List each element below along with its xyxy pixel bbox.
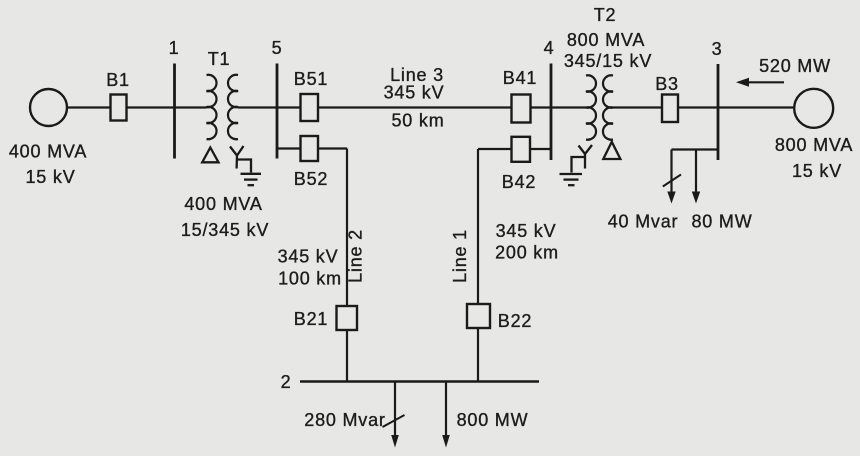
svg-text:B1: B1: [106, 70, 130, 90]
svg-text:400 MVA: 400 MVA: [184, 194, 262, 214]
wire B3 to G2: [678, 106, 795, 108]
wye T2: [579, 145, 593, 169]
svg-text:T2: T2: [594, 5, 617, 25]
svg-text:345/15 kV: 345/15 kV: [564, 51, 652, 71]
svg-text:B42: B42: [502, 172, 536, 192]
wire T1 to B51: [238, 106, 301, 108]
wire B41 to T2: [531, 106, 587, 108]
svg-text:15 kV: 15 kV: [25, 167, 75, 187]
breaker B51: [301, 94, 319, 121]
breaker B1: [111, 95, 127, 121]
breaker B22: [467, 304, 490, 328]
wire T2 to B3: [613, 106, 662, 108]
svg-text:100 km: 100 km: [278, 269, 342, 289]
svg-text:15/345 kV: 15/345 kV: [181, 220, 269, 240]
breaker B41: [512, 95, 531, 123]
svg-text:2: 2: [281, 372, 292, 392]
bus 4: [550, 64, 553, 161]
svg-text:1: 1: [169, 38, 180, 58]
transformer T1: [207, 49, 239, 139]
svg-text:B52: B52: [294, 169, 328, 189]
arrow 520 MW: [736, 56, 831, 87]
breaker B21: [337, 306, 358, 330]
svg-text:345 kV: 345 kV: [384, 83, 445, 103]
delta T2: [603, 142, 620, 159]
generator G1: [30, 89, 67, 126]
svg-text:800 MVA: 800 MVA: [775, 135, 853, 155]
load 800 MW: [445, 382, 447, 436]
svg-text:40 Mvar: 40 Mvar: [608, 212, 679, 232]
svg-text:400 MVA: 400 MVA: [9, 142, 87, 162]
svg-text:520 MW: 520 MW: [759, 56, 831, 76]
bus 5: [276, 64, 279, 159]
svg-text:3: 3: [712, 39, 723, 59]
slash (40 Mvar): [663, 175, 681, 187]
wire B42 to bus 4: [530, 148, 551, 150]
svg-text:15 kV: 15 kV: [792, 161, 842, 181]
bus 1: [173, 64, 176, 159]
svg-text:345 kV: 345 kV: [496, 221, 557, 241]
svg-text:B51: B51: [294, 69, 328, 89]
svg-text:Line 1: Line 1: [450, 229, 470, 283]
svg-text:B22: B22: [498, 311, 532, 331]
bus 2: [300, 380, 539, 382]
svg-text:B41: B41: [503, 68, 537, 88]
wire Line 3: [318, 106, 512, 108]
breaker B42: [512, 137, 531, 162]
svg-text:200 km: 200 km: [495, 243, 559, 263]
load arrowheads (40 Mvar, 80 MW): [667, 192, 700, 204]
svg-text:4: 4: [544, 38, 555, 58]
svg-text:5: 5: [272, 38, 283, 58]
svg-text:280 Mvar: 280 Mvar: [304, 410, 385, 430]
breaker B3: [662, 95, 678, 123]
wire Line 1: [477, 149, 479, 304]
wire bus5 to B52: [277, 147, 301, 149]
generator G2: [794, 89, 833, 128]
load branch at bus 3: [672, 150, 719, 193]
transformer T2: [564, 5, 652, 140]
ground T1: [237, 160, 261, 186]
bus 3: [717, 64, 720, 160]
load 280 Mvar: [394, 382, 396, 436]
wire B22 to bus 2: [477, 328, 479, 382]
wire Line 2: [346, 149, 348, 307]
svg-text:B3: B3: [655, 74, 679, 94]
wire B42 to Line 1: [478, 148, 512, 150]
wye T1: [230, 146, 244, 169]
wire B52 to Line 2: [318, 147, 347, 149]
wire G1 to B1: [67, 106, 111, 108]
svg-text:800 MVA: 800 MVA: [567, 30, 645, 50]
svg-text:345 kV: 345 kV: [278, 247, 339, 267]
svg-text:50 km: 50 km: [391, 111, 444, 131]
delta T1: [202, 148, 218, 163]
svg-text:B21: B21: [294, 309, 328, 329]
ground T2: [560, 157, 586, 185]
svg-text:T1: T1: [208, 49, 231, 69]
wire B21 to bus 2: [346, 330, 348, 382]
svg-text:800 MW: 800 MW: [457, 410, 529, 430]
wire B1 to T1: [127, 106, 207, 108]
svg-text:80 MW: 80 MW: [691, 212, 752, 232]
svg-text:Line 2: Line 2: [346, 229, 366, 283]
breaker B52: [301, 136, 319, 161]
